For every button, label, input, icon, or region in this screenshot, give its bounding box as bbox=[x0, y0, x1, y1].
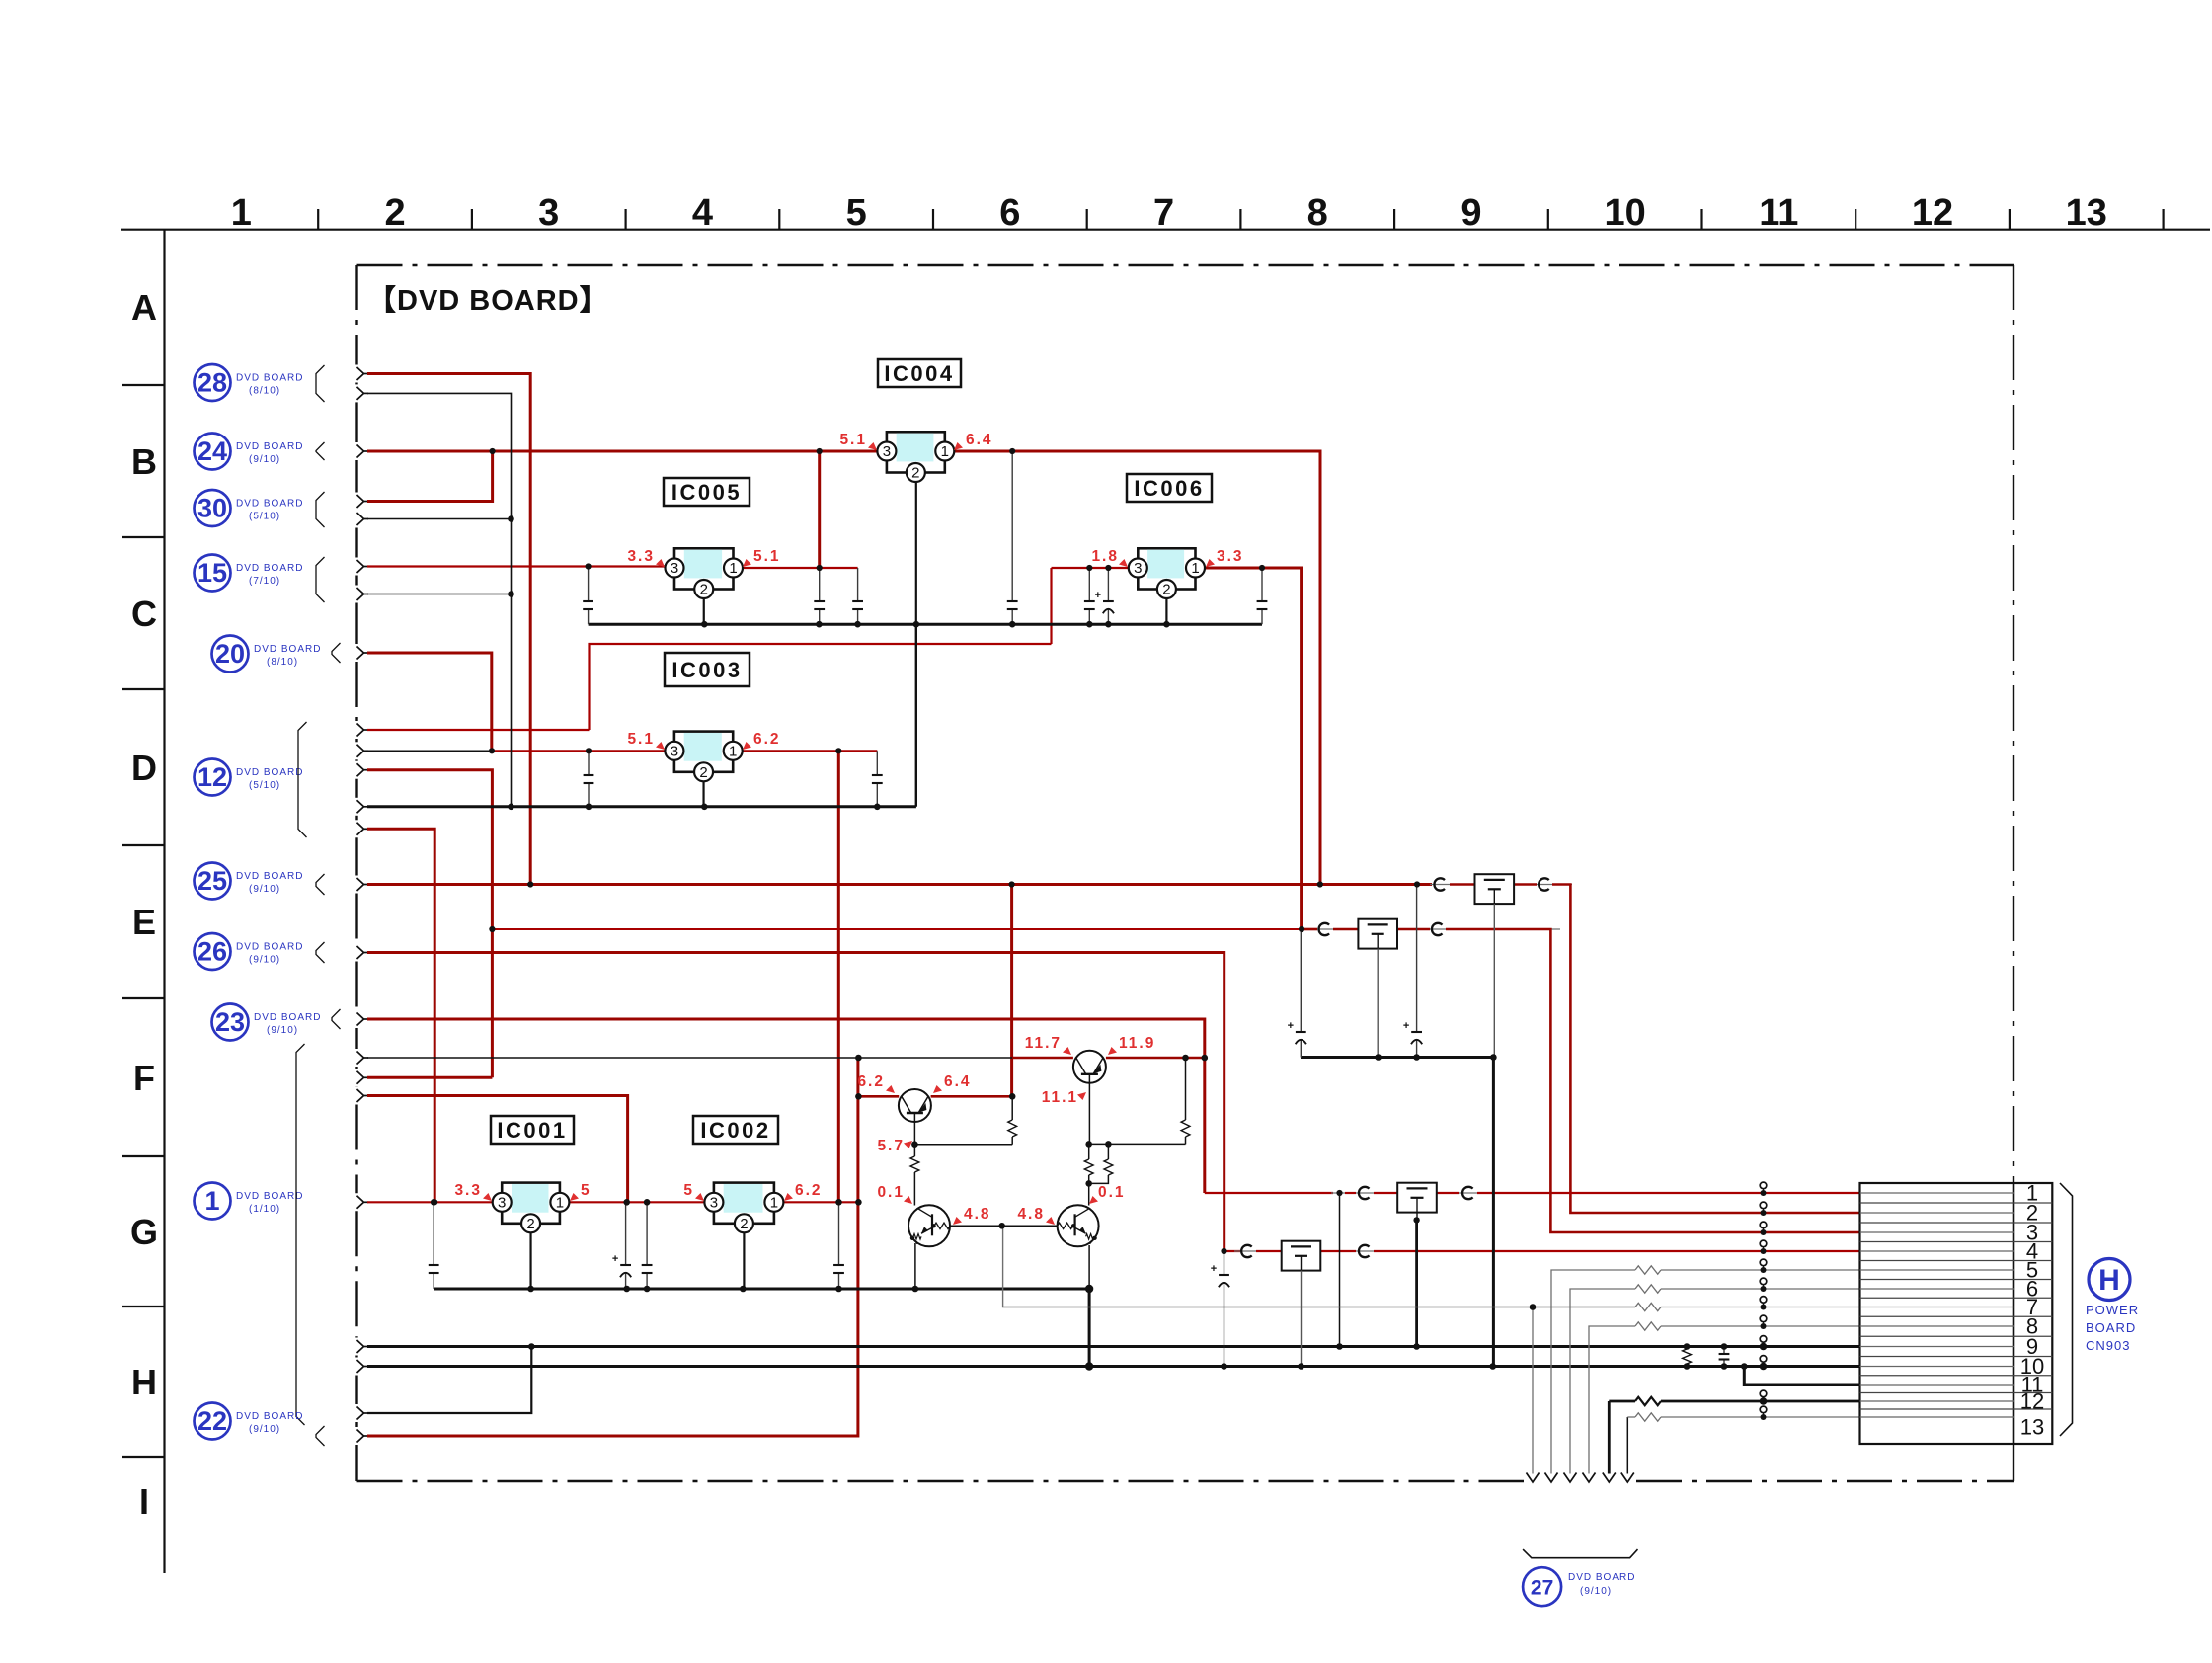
wire Q4 11.1 stem bbox=[1088, 1074, 1090, 1144]
junction bbox=[835, 1286, 842, 1293]
wire 12-a to node 652 bbox=[367, 729, 590, 731]
wire 26 power line down bbox=[367, 953, 1224, 1252]
svg-text:11.9: 11.9 bbox=[1119, 1035, 1155, 1052]
svg-text:1.8: 1.8 bbox=[1091, 548, 1119, 565]
junction bbox=[874, 804, 881, 811]
wire E bus riser to pin10 bus bbox=[1492, 1058, 1495, 1367]
svg-text:F: F bbox=[133, 1058, 155, 1098]
junction bbox=[855, 1055, 862, 1062]
junction bbox=[835, 748, 841, 753]
junction bbox=[817, 448, 823, 454]
left entry arrow bbox=[357, 1407, 364, 1420]
wire IC004 output 6.4 bbox=[954, 451, 1320, 885]
svg-text:+: + bbox=[1288, 1020, 1294, 1032]
junction bbox=[1413, 1343, 1420, 1350]
svg-text:B: B bbox=[131, 441, 157, 482]
svg-text:15: 15 bbox=[197, 558, 227, 588]
junction bbox=[1413, 1054, 1420, 1061]
left entry arrow bbox=[357, 724, 364, 737]
wire pin1 node riser to pin9 bus bbox=[1339, 1193, 1341, 1347]
svg-text:(9/10): (9/10) bbox=[249, 955, 280, 966]
left entry arrow bbox=[357, 387, 364, 400]
wire pin1 row from 23 net bbox=[1205, 1192, 1333, 1194]
junction bbox=[1085, 1180, 1092, 1187]
svg-text:(9/10): (9/10) bbox=[249, 454, 280, 465]
junction bbox=[1009, 448, 1015, 454]
wire 12-c down the left column bbox=[367, 770, 492, 1078]
left entry arrow bbox=[357, 1052, 364, 1065]
wire 20 down to IC003 input bbox=[367, 653, 492, 751]
wire pin12 row with resistor bbox=[1608, 1401, 1611, 1474]
wire 30 black bbox=[367, 518, 512, 520]
svg-text:0.1: 0.1 bbox=[1098, 1184, 1126, 1201]
filter FL1 on 25 line bbox=[1475, 874, 1515, 904]
svg-text:2: 2 bbox=[740, 1216, 748, 1232]
junction bbox=[1490, 1054, 1497, 1061]
svg-text:1: 1 bbox=[556, 1194, 564, 1211]
connector CN903 box bbox=[1860, 1183, 2053, 1444]
svg-text:28: 28 bbox=[197, 368, 227, 398]
svg-text:+: + bbox=[1211, 1263, 1217, 1275]
svg-text:(9/10): (9/10) bbox=[1580, 1586, 1612, 1597]
IC001 pin2 lead bbox=[529, 1232, 531, 1289]
op-amp regulator IC002 bbox=[714, 1183, 774, 1224]
bottom exit arrow bbox=[1583, 1473, 1596, 1483]
wire Q4 base red 11.7 bbox=[1012, 1057, 1073, 1060]
wire Q3 ground riser to pin10 bus bbox=[1088, 1289, 1091, 1367]
junction bbox=[489, 748, 495, 753]
left entry arrow bbox=[357, 495, 364, 508]
junction bbox=[1086, 565, 1092, 571]
svg-text:IC006: IC006 bbox=[1134, 476, 1204, 501]
junction bbox=[623, 1199, 630, 1206]
H bus line pin10 bbox=[367, 1365, 1860, 1368]
wire 25 riser to Q4 base 11.7 bbox=[1010, 885, 1013, 1097]
junction bbox=[855, 1093, 862, 1100]
svg-text:5.1: 5.1 bbox=[753, 548, 781, 565]
wire 15 red to IC005 pin3 bbox=[367, 565, 666, 567]
svg-text:1: 1 bbox=[204, 1186, 219, 1216]
ref 23 DVD BOARD 9/10 bbox=[212, 1004, 249, 1041]
svg-text:5.1: 5.1 bbox=[839, 432, 867, 448]
IC002 label bbox=[693, 1116, 778, 1144]
svg-text:5: 5 bbox=[846, 193, 867, 234]
svg-text:3.3: 3.3 bbox=[627, 548, 655, 565]
left entry arrow bbox=[357, 823, 364, 835]
svg-text:3: 3 bbox=[498, 1194, 506, 1211]
resistor Q1 emitter chain bbox=[910, 1156, 919, 1172]
ferrite bead C marker bbox=[1434, 878, 1445, 890]
junction bbox=[644, 1286, 651, 1293]
svg-text:13: 13 bbox=[2020, 1415, 2044, 1440]
capacitor C16 polar bbox=[1224, 1251, 1225, 1275]
wire 25 filter underlay bbox=[1430, 884, 1572, 886]
ref 27 DVD BOARD 9/10 bbox=[1523, 1567, 1561, 1606]
svg-text:8: 8 bbox=[1307, 193, 1328, 234]
svg-text:DVD BOARD: DVD BOARD bbox=[236, 942, 303, 953]
transistor Q2 (digital) bbox=[908, 1205, 950, 1246]
wire H third arrow up to pin9 bus bbox=[367, 1347, 531, 1414]
svg-text:6.4: 6.4 bbox=[944, 1073, 972, 1090]
capacitor C11 polar bbox=[625, 1202, 627, 1265]
svg-text:2: 2 bbox=[700, 582, 708, 598]
connector cell lines bbox=[1860, 1202, 2053, 1204]
connector CN903 divider (border crossing) bbox=[2013, 1183, 2015, 1444]
svg-text:26: 26 bbox=[197, 937, 227, 967]
svg-text:6: 6 bbox=[999, 193, 1020, 234]
svg-text:A: A bbox=[131, 287, 157, 328]
junction bbox=[854, 621, 861, 628]
svg-text:4.8: 4.8 bbox=[1017, 1206, 1045, 1223]
ref 25 DVD BOARD 9/10 bbox=[195, 863, 231, 900]
svg-text:2: 2 bbox=[526, 1216, 534, 1232]
wire node 1158 right bbox=[1089, 1143, 1186, 1145]
capacitor C13 bbox=[838, 1202, 840, 1265]
board border left segments with arrow gaps bbox=[355, 265, 357, 365]
connector right brace bbox=[2060, 1183, 2073, 1436]
connector via pin 3 bbox=[1760, 1222, 1767, 1228]
left entry arrow bbox=[357, 1430, 364, 1443]
capacitor C7 bbox=[1261, 568, 1263, 601]
junction bbox=[1163, 621, 1170, 628]
svg-text:0.1: 0.1 bbox=[877, 1184, 905, 1201]
left entry arrow bbox=[357, 1071, 364, 1084]
svg-text:DVD BOARD: DVD BOARD bbox=[236, 1191, 303, 1202]
ref 26 DVD BOARD 9/10 bbox=[195, 933, 231, 970]
wire 1.8 riser to IC006 pin3 bbox=[1050, 568, 1052, 644]
capacitor C6 polar bbox=[1107, 568, 1109, 601]
svg-text:DVD BOARD: DVD BOARD bbox=[236, 373, 303, 384]
svg-text:IC001: IC001 bbox=[497, 1118, 567, 1143]
ferrite bead C marker bbox=[1462, 1187, 1473, 1199]
wire IC003 output 6.2 bbox=[742, 750, 877, 752]
ferrite bead C marker bbox=[1539, 878, 1549, 890]
junction bbox=[912, 1286, 919, 1293]
transistor Q3 (digital) bbox=[1058, 1205, 1099, 1246]
svg-text:4: 4 bbox=[692, 193, 713, 234]
junction bbox=[1221, 1363, 1227, 1370]
grid ruler left line bbox=[163, 230, 165, 1573]
svg-text:1: 1 bbox=[941, 443, 949, 460]
left entry arrow bbox=[357, 560, 364, 573]
wire 22 up to 6.2 net bbox=[367, 1058, 858, 1436]
ref 30 DVD BOARD 5/10 bbox=[195, 490, 231, 526]
svg-text:DVD BOARD: DVD BOARD bbox=[236, 871, 303, 882]
filter FL3 on pin1 line bbox=[1397, 1183, 1437, 1213]
svg-text:IC004: IC004 bbox=[884, 361, 954, 386]
junction bbox=[1009, 1093, 1016, 1100]
bottom exit arrow bbox=[1621, 1473, 1634, 1483]
svg-text:24: 24 bbox=[197, 436, 227, 466]
bottom brace 27 bbox=[1523, 1549, 1637, 1558]
wire F-red short joining 12-c column bbox=[367, 1076, 492, 1079]
ferrite bead C marker bbox=[1241, 1245, 1252, 1257]
svg-text:3: 3 bbox=[1134, 560, 1142, 577]
svg-text:5: 5 bbox=[581, 1182, 592, 1199]
transistor Q1 bbox=[899, 1089, 931, 1122]
svg-text:1: 1 bbox=[231, 193, 252, 234]
junction bbox=[1721, 1363, 1728, 1370]
IC004 pin2 lead bbox=[915, 482, 917, 624]
wire pin1 filter ground riser bbox=[1415, 1220, 1418, 1346]
junction bbox=[1336, 1190, 1342, 1196]
svg-text:(9/10): (9/10) bbox=[267, 1025, 298, 1036]
junction bbox=[701, 621, 708, 628]
connector via pin 4 bbox=[1760, 1240, 1767, 1247]
wire 1109 to IC002 input bbox=[367, 1096, 628, 1203]
svg-text:3.3: 3.3 bbox=[1217, 548, 1244, 565]
junction bbox=[586, 563, 592, 569]
svg-text:DVD BOARD: DVD BOARD bbox=[236, 563, 303, 574]
svg-text:6.4: 6.4 bbox=[966, 432, 993, 448]
ground bus IC005 IC004 IC006 row bbox=[589, 623, 1262, 626]
svg-text:DVD BOARD: DVD BOARD bbox=[254, 644, 321, 655]
junction bbox=[1105, 1141, 1112, 1148]
svg-text:1: 1 bbox=[729, 560, 737, 577]
wire 1 into IC001 pin3 bbox=[367, 1201, 493, 1203]
svg-text:+: + bbox=[1095, 590, 1101, 601]
wire 5 net IC001 to IC002 bbox=[569, 1201, 705, 1203]
junction bbox=[1105, 565, 1111, 571]
svg-text:1: 1 bbox=[729, 743, 737, 759]
junction bbox=[623, 1286, 630, 1293]
junction bbox=[1221, 1248, 1226, 1254]
capacitor C3 bbox=[857, 568, 859, 601]
ref 1 DVD BOARD 1/10 bbox=[195, 1183, 231, 1220]
junction bbox=[835, 1199, 842, 1206]
left entry arrow bbox=[357, 800, 364, 813]
svg-text:IC005: IC005 bbox=[671, 480, 742, 505]
svg-text:5.1: 5.1 bbox=[627, 731, 655, 748]
junction bbox=[1085, 1141, 1092, 1148]
left entry arrow bbox=[357, 1196, 364, 1209]
ground bus IC001 IC002 row bbox=[434, 1288, 1089, 1291]
op-amp regulator IC006 bbox=[1138, 548, 1195, 589]
ref 12 DVD BOARD 5/10 bbox=[195, 759, 231, 796]
junction bbox=[1086, 621, 1093, 628]
connector via pin 1 bbox=[1760, 1182, 1767, 1189]
svg-text:(9/10): (9/10) bbox=[249, 884, 280, 895]
wire Q2 ground lead bbox=[914, 1243, 916, 1289]
IC005 pin2 lead bbox=[703, 598, 705, 624]
capacitor C4 bbox=[1011, 451, 1013, 601]
svg-text:12: 12 bbox=[1912, 193, 1953, 234]
svg-text:3: 3 bbox=[710, 1194, 718, 1211]
svg-text:IC002: IC002 bbox=[700, 1118, 770, 1143]
capacitor C2 bbox=[819, 568, 821, 601]
IC003 label bbox=[665, 653, 750, 686]
junction bbox=[1299, 926, 1304, 932]
svg-text:11: 11 bbox=[1759, 193, 1798, 234]
svg-text:(8/10): (8/10) bbox=[267, 657, 298, 668]
connector via pin 13 bbox=[1760, 1406, 1767, 1413]
connector pin stubs bbox=[1860, 1192, 2014, 1194]
junction bbox=[1105, 621, 1112, 628]
junction bbox=[1414, 881, 1420, 887]
bottom exit arrow bbox=[1603, 1473, 1616, 1483]
wire Q4 emitter red 11.9 bbox=[1106, 1057, 1205, 1060]
svg-text:(5/10): (5/10) bbox=[249, 512, 280, 522]
capacitor C12 bbox=[646, 1202, 648, 1265]
ref 24 DVD BOARD 9/10 bbox=[195, 434, 231, 470]
wire 23 power line down to Q4 collector bbox=[367, 1019, 1205, 1193]
svg-text:10: 10 bbox=[1605, 193, 1646, 234]
left entry arrow bbox=[357, 647, 364, 660]
svg-text:BOARD: BOARD bbox=[2086, 1320, 2136, 1335]
wire pin5 row with resistor bbox=[1551, 1270, 1635, 1474]
svg-text:DVD BOARD: DVD BOARD bbox=[254, 1012, 321, 1023]
left entry arrow bbox=[357, 946, 364, 959]
svg-text:DVD BOARD: DVD BOARD bbox=[236, 441, 303, 452]
IC003 pin2 lead bbox=[702, 781, 704, 807]
junction bbox=[1085, 1362, 1093, 1370]
junction bbox=[1298, 1363, 1304, 1370]
wire Q1 emitter red 6.4 bbox=[931, 1095, 1013, 1098]
junction bbox=[1336, 1343, 1343, 1350]
svg-text:DVD BOARD: DVD BOARD bbox=[236, 1411, 303, 1422]
svg-text:3: 3 bbox=[883, 443, 891, 460]
board border right lower bbox=[2013, 1444, 2014, 1481]
junction bbox=[644, 1199, 651, 1206]
wire Q1 5.7 node bbox=[913, 1122, 915, 1145]
wire node 652 horizontal bbox=[590, 644, 1052, 730]
wire F black long bbox=[367, 1057, 1012, 1059]
svg-text:25: 25 bbox=[197, 866, 227, 896]
ref 20 DVD BOARD 8/10 bbox=[212, 636, 249, 673]
junction bbox=[528, 1343, 535, 1350]
svg-text:IC003: IC003 bbox=[671, 658, 742, 682]
left entry arrow bbox=[357, 513, 364, 525]
wire bottom arrow1 to pin7 row bbox=[1532, 1307, 1534, 1474]
junction bbox=[527, 1286, 534, 1293]
capacitor C10 bbox=[433, 1202, 434, 1265]
connector via pin 10 bbox=[1760, 1356, 1767, 1363]
junction bbox=[701, 804, 708, 811]
svg-text:(7/10): (7/10) bbox=[249, 576, 280, 587]
left entry arrow bbox=[357, 367, 364, 380]
wire IC005 output 5.1 bbox=[743, 567, 858, 569]
junction bbox=[527, 881, 533, 887]
op-amp regulator IC003 bbox=[674, 732, 733, 772]
wire 25 long power line bbox=[367, 883, 1432, 886]
transistor Q4 bbox=[1073, 1051, 1106, 1083]
svg-text:11.1: 11.1 bbox=[1042, 1089, 1078, 1106]
svg-text:9: 9 bbox=[1461, 193, 1481, 234]
connector via pin 2 bbox=[1760, 1202, 1767, 1209]
left entry arrow bbox=[357, 445, 364, 458]
resistor pair to 0.1 node b bbox=[1107, 1144, 1109, 1159]
wire node941 filter underlay bbox=[1313, 928, 1560, 930]
wire 12-e down to IC001 input bbox=[367, 829, 434, 1202]
junction bbox=[1741, 1363, 1748, 1370]
capacitor C17 bbox=[1723, 1347, 1725, 1355]
svg-text:(8/10): (8/10) bbox=[249, 386, 280, 397]
svg-text:5.7: 5.7 bbox=[877, 1138, 905, 1154]
svg-text:11.7: 11.7 bbox=[1025, 1035, 1062, 1052]
grid row ticks bbox=[122, 384, 165, 386]
junction bbox=[817, 565, 823, 571]
ground bus IC003 riser to IC005 bus bbox=[915, 624, 917, 807]
junction bbox=[431, 1199, 437, 1206]
op-amp regulator IC001 bbox=[502, 1183, 560, 1224]
left entry arrow bbox=[357, 1360, 364, 1373]
grid column ticks bbox=[317, 209, 319, 230]
svg-text:12: 12 bbox=[197, 762, 227, 792]
ferrite bead C marker bbox=[1319, 923, 1330, 935]
svg-text:4.8: 4.8 bbox=[964, 1206, 991, 1223]
svg-text:23: 23 bbox=[215, 1007, 245, 1037]
junction bbox=[586, 748, 592, 753]
junction bbox=[1009, 621, 1016, 628]
junction bbox=[1684, 1343, 1691, 1350]
svg-text:DVD BOARD: DVD BOARD bbox=[236, 499, 303, 510]
capacitor C15 polar bbox=[1416, 885, 1418, 1033]
wire Q1 base red 6.2 bbox=[858, 1095, 899, 1098]
connector via pin 7 bbox=[1760, 1297, 1767, 1304]
svg-text:H: H bbox=[131, 1362, 157, 1402]
left entry arrow bbox=[357, 1013, 364, 1026]
H bus line pin9 bbox=[367, 1345, 1860, 1348]
junction bbox=[508, 515, 514, 522]
ground bus IC003 row bbox=[367, 805, 916, 808]
junction bbox=[1317, 881, 1323, 887]
wire IC006 output 3.3 bbox=[1205, 568, 1302, 929]
junction bbox=[489, 926, 495, 932]
capacitor C5 bbox=[1088, 568, 1090, 601]
resistor from 11.9 node bbox=[1185, 1058, 1187, 1120]
junction bbox=[740, 1286, 747, 1293]
svg-text:22: 22 bbox=[197, 1406, 227, 1436]
board border top bbox=[357, 264, 2014, 266]
ferrite bead C marker bbox=[1359, 1245, 1370, 1257]
op-amp regulator IC004 bbox=[887, 432, 945, 472]
svg-text:2: 2 bbox=[911, 465, 919, 482]
wire 1.8 into IC006 pin3 bbox=[1052, 567, 1130, 569]
wire node941 filter segments to pin3 bbox=[1302, 928, 1317, 931]
IC002 pin2 lead bbox=[743, 1232, 745, 1289]
svg-text:13: 13 bbox=[2066, 193, 2107, 234]
svg-text:G: G bbox=[130, 1212, 158, 1252]
ref 28 DVD BOARD 8/10 bbox=[195, 364, 231, 401]
ref 15 DVD BOARD 7/10 bbox=[195, 555, 231, 592]
svg-text:6.2: 6.2 bbox=[857, 1073, 885, 1090]
svg-text:+: + bbox=[1403, 1020, 1409, 1032]
wire pin11 jog from pin10 bus bbox=[1744, 1367, 1859, 1386]
wire node941 row bbox=[492, 928, 1303, 930]
svg-text:3: 3 bbox=[538, 193, 559, 234]
junction bbox=[586, 804, 592, 811]
connector via pin 6 bbox=[1760, 1278, 1767, 1285]
filter FL4 on pin4 line bbox=[1282, 1241, 1321, 1271]
svg-text:C: C bbox=[131, 594, 157, 634]
wire Q3 ground lead bbox=[1088, 1245, 1090, 1289]
bottom exit arrow bbox=[1527, 1473, 1540, 1483]
svg-text:6.2: 6.2 bbox=[753, 731, 781, 748]
junction bbox=[1375, 1054, 1382, 1061]
junction bbox=[913, 621, 920, 628]
wire 25 filter red segments bbox=[1450, 883, 1474, 886]
junction bbox=[855, 1199, 862, 1206]
svg-text:3: 3 bbox=[671, 743, 678, 759]
svg-text:DVD BOARD: DVD BOARD bbox=[236, 767, 303, 778]
svg-text:2: 2 bbox=[1162, 582, 1170, 598]
IC004 label bbox=[878, 359, 961, 387]
junction bbox=[1259, 565, 1265, 571]
junction bbox=[1489, 1363, 1496, 1370]
wire IC003 input 5.1 bbox=[492, 750, 666, 752]
wire pin7 row from Q collector node bbox=[1003, 1226, 1635, 1307]
svg-text:(9/10): (9/10) bbox=[249, 1424, 280, 1435]
